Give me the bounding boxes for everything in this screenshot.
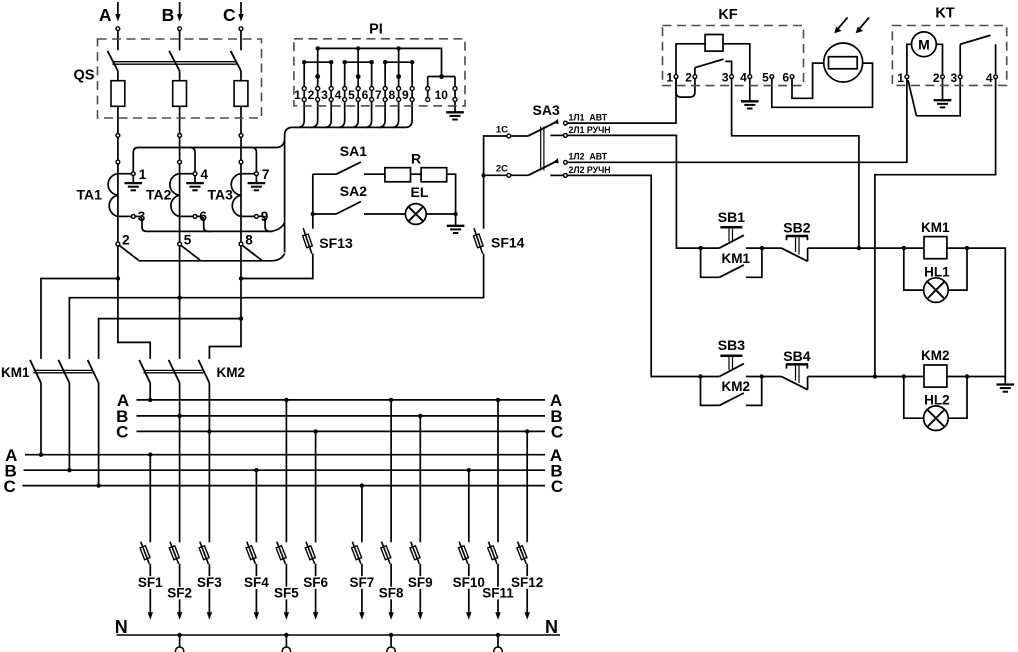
breaker SF6 (306, 542, 315, 564)
coil KM1 (904, 247, 924, 249)
light arrow 1 (838, 18, 848, 29)
button SB4 (762, 376, 782, 378)
svg-text:SF8: SF8 (379, 586, 404, 601)
ground at TA2 terminal 4 (194, 176, 196, 184)
svg-text:SA2: SA2 (340, 183, 367, 199)
node on phase C (239, 134, 243, 138)
node SA3 output 2L2 (564, 174, 568, 178)
svg-text:1: 1 (897, 71, 904, 85)
node SF5 on bus (284, 398, 288, 402)
arrow SF2 to N (177, 612, 182, 620)
arrow SF11 to N (495, 612, 500, 620)
svg-text:R: R (411, 150, 421, 166)
node N feeder at x=286.4 (284, 633, 288, 637)
wire KF terminal 6 to photoresistor (792, 63, 829, 98)
wire SF4 from bus (255, 470, 257, 542)
node KM1 c2 on bus B (67, 468, 71, 472)
svg-text:C: C (551, 477, 563, 496)
wire SF13 to phase C tap (241, 254, 313, 279)
svg-text:4: 4 (986, 71, 993, 85)
contactor KM2 main contact at x=150.2 (139, 360, 150, 383)
node tap phase C (239, 276, 243, 280)
svg-text:TA1: TA1 (77, 187, 103, 203)
contactor KM1 main contact at x=41.0 (30, 360, 41, 383)
svg-text:KM2: KM2 (921, 348, 950, 363)
wire SF7 lower (361, 564, 363, 613)
breaker SF5 label (269, 587, 303, 600)
node on phase A (116, 160, 120, 164)
node KF feed join (857, 246, 861, 250)
switch SA3 pole 1 blade (511, 135, 529, 137)
node on phase A (116, 134, 120, 138)
svg-text:SB1: SB1 (718, 209, 745, 225)
svg-text:SF5: SF5 (274, 586, 299, 601)
node KM2 coil right (965, 374, 969, 378)
svg-text:SF9: SF9 (408, 575, 433, 590)
wire phase A through TA primary (117, 164, 119, 242)
switch SA2 (313, 213, 336, 215)
switch SA1 (313, 173, 336, 175)
node R-EL junction (453, 212, 457, 216)
node SF11 on bus (496, 398, 500, 402)
svg-text:HL1: HL1 (924, 264, 950, 279)
wire phase A into QS (117, 31, 119, 51)
svg-text:KF: KF (718, 7, 737, 23)
arrow SF10 to N (466, 612, 471, 620)
wire PI terminal 3 column (330, 62, 332, 86)
svg-text:SF3: SF3 (197, 575, 222, 590)
switch QS blade phase A (108, 51, 118, 71)
outer bus B (24, 469, 546, 471)
node terminal 8 (239, 242, 243, 246)
QS linkage bar (113, 61, 237, 63)
ground at EL junction (455, 214, 457, 226)
outer bus C (23, 485, 546, 487)
KM2 linkage bar (144, 369, 204, 371)
KT dashed box (892, 26, 1006, 86)
wire SF14 up to SA3 feed (484, 136, 507, 229)
svg-text:2: 2 (685, 71, 692, 85)
breaker SF12 label (510, 576, 544, 589)
breaker SF10 (459, 542, 468, 564)
breaker SF1 label (133, 576, 167, 589)
wire N feeder at x=179.6 (179, 635, 181, 647)
wire SF9 lower (419, 564, 421, 613)
lamp HL2 (924, 406, 949, 431)
breaker SF2 label (163, 587, 197, 600)
wire TA3 terminal 9 stub (241, 215, 255, 217)
svg-text:QS: QS (74, 68, 95, 84)
wire fuse C down (240, 106, 242, 133)
wire hook terminal 9 to bus (258, 216, 272, 231)
node terminal 2 (116, 242, 120, 246)
svg-text:2: 2 (122, 233, 130, 248)
node PI terminal 6 top (370, 87, 374, 91)
node PI terminal 2 bottom (316, 98, 320, 102)
node PI terminal 2 top (316, 87, 320, 91)
svg-text:SF10: SF10 (453, 575, 485, 590)
svg-text:4: 4 (740, 71, 747, 85)
wire R middle (411, 173, 422, 175)
wire SF8 lower (390, 564, 392, 613)
svg-text:2Л2 РУЧН: 2Л2 РУЧН (569, 165, 611, 175)
phase A input arrow (117, 2, 119, 15)
node SF9 on bus (418, 414, 422, 418)
breaker SF13 (303, 228, 312, 254)
wire SF4 lower (255, 564, 257, 613)
wire SB2 to KM1 coil (808, 247, 904, 249)
svg-text:8: 8 (389, 88, 396, 102)
svg-text:1: 1 (666, 71, 673, 85)
arrow SF6 to N (313, 612, 318, 620)
wire SF7 from bus (361, 486, 363, 543)
node KT terminal 1 (905, 75, 909, 79)
node KF terminal 4 (748, 75, 752, 79)
breaker SF4 label (239, 576, 273, 589)
svg-text:KM1: KM1 (722, 251, 751, 266)
wire 1L1 AVT to KF terminal 1 (567, 79, 676, 124)
svg-text:1: 1 (294, 88, 301, 102)
svg-text:5: 5 (762, 71, 769, 85)
PI top bus (318, 48, 442, 76)
wire tap phase C to KM1 contact 3 (99, 319, 241, 359)
wire PI terminal 10 feed (428, 76, 455, 78)
svg-text:3: 3 (951, 71, 958, 85)
wire KF jumper terminals 1-2 (676, 79, 695, 98)
photoresistor body (829, 57, 858, 69)
node PI terminal 9 top (410, 87, 414, 91)
wire phase C (240, 137, 242, 160)
wire SF1 from bus (149, 455, 151, 543)
node KM2 c1 on inner bus A (148, 398, 152, 402)
breaker SF3 label (192, 576, 226, 589)
node KT terminal 2 (941, 75, 945, 79)
button SB2 (762, 247, 782, 249)
ground at KF terminal 4 (749, 79, 751, 101)
switch QS blade phase C (231, 51, 241, 71)
wire PI terminal 8 column (398, 48, 400, 86)
breaker SF12 (518, 542, 527, 564)
node PI T2 junction (315, 74, 320, 79)
node terminal 1 (131, 172, 135, 176)
node PI terminal 4 bottom (343, 98, 347, 102)
wire N feeder at x=498.0 (497, 635, 499, 647)
wire PI T10 to ground (454, 101, 456, 111)
node terminal 6 (193, 215, 197, 219)
svg-text:KT: KT (935, 6, 954, 22)
svg-text:1Л1 АВТ: 1Л1 АВТ (569, 112, 608, 122)
node PI terminal 7 bottom (383, 98, 387, 102)
svg-text:7: 7 (375, 88, 382, 102)
wire QS blade to fuse B (179, 71, 181, 81)
node SA3 2C input (507, 173, 511, 177)
wire harness top line to terminals 1,4,7 (133, 141, 284, 172)
node terminal 9 (255, 215, 259, 219)
svg-text:4: 4 (335, 88, 342, 102)
phase B input arrow (179, 2, 181, 15)
node KT terminal 4 (994, 75, 998, 79)
contact KM2 aux (701, 377, 720, 406)
svg-text:SF13: SF13 (319, 235, 353, 251)
node SA3 output 1L1 (564, 121, 568, 125)
wire tap phase A to KM1 contact 1 (41, 279, 118, 359)
wire phase B to KM2 contact 2 (179, 246, 181, 359)
wire KM2 contact2 to inner bus B and SF2 (179, 383, 181, 542)
wire TA2 terminal 4 stub (180, 173, 194, 175)
node KF terminal 5 (770, 75, 774, 79)
svg-text:5: 5 (348, 88, 355, 102)
wire KM2 row to ground (967, 376, 1005, 378)
breaker SF9 (411, 542, 420, 564)
resistor R box1 (385, 168, 411, 182)
arrow SF7 to N (359, 612, 364, 620)
relay KF coil (676, 44, 705, 75)
switch QS blade phase B (169, 51, 179, 71)
node KF terminal 6 (790, 75, 794, 79)
svg-text:SB2: SB2 (783, 220, 810, 236)
wire SF1 lower (149, 564, 151, 613)
phase C input arrow (240, 2, 242, 15)
wire PI terminal 4 column (344, 62, 346, 86)
svg-text:6: 6 (782, 71, 789, 85)
node SF4 on bus (254, 468, 258, 472)
node KM1 row left (698, 246, 702, 250)
PI mid bus 7-9 (385, 61, 412, 63)
wire phase B through TA primary (179, 164, 181, 242)
wire hook terminal 6 to bus (197, 216, 211, 231)
svg-text:SF14: SF14 (491, 235, 525, 251)
wire SF6 from bus (315, 431, 317, 542)
svg-text:KM2: KM2 (217, 365, 246, 380)
wire TA3 terminal 7 stub (241, 173, 255, 175)
node PI terminal 6 bottom (370, 98, 374, 102)
node KT feed join (873, 374, 877, 378)
wire TA1 terminal 1 stub (118, 173, 131, 175)
wire SB4 to KM2 coil (808, 376, 904, 378)
node N feeder at x=498.0 (496, 633, 500, 637)
node KM2 row left (698, 374, 702, 378)
node SF6 on bus (313, 429, 317, 433)
node SA3 output 2L1 (564, 134, 568, 138)
node KF terminal 1 (674, 75, 678, 79)
wire KT terminal 4 to KM2 row (875, 79, 996, 377)
wire harness drop to terminal 4 (190, 148, 195, 172)
breaker SF8 (382, 542, 391, 564)
wire tap phase B to KM1 contact 2 and SF14 (69, 254, 483, 359)
svg-text:8: 8 (245, 233, 253, 248)
wire SF11 from bus (497, 400, 499, 542)
node PI top bus T2 (315, 46, 319, 50)
svg-text:9: 9 (402, 88, 409, 102)
contactor KM2 main contact at x=179.6 (169, 360, 180, 383)
svg-text:EL: EL (411, 184, 429, 200)
breaker SF1 (141, 542, 150, 564)
svg-text:N: N (115, 617, 128, 637)
breaker SF3 (200, 542, 209, 564)
wire to 2C (486, 174, 507, 176)
wire SF9 from bus (419, 416, 421, 542)
node terminal 5 (178, 242, 182, 246)
node KM2 row mid (760, 374, 764, 378)
blade terminal 8 to bundle (243, 246, 262, 261)
arrow SF4 to N (254, 612, 259, 620)
node SF12 on bus (525, 429, 529, 433)
wire SA1-SA2 left vertical (312, 174, 314, 229)
node KF terminal 3 (730, 75, 734, 79)
SA3 linkage bars (540, 127, 542, 171)
wire N feeder at x=391.1 (390, 635, 392, 647)
PI mid bus 4-6 (345, 61, 372, 63)
node tap phase C lower (239, 316, 243, 320)
wire SF11 lower (497, 564, 499, 613)
wire 2L1 RUCHN to KM1 row (567, 135, 700, 248)
node KT terminal 3 (958, 75, 962, 79)
svg-text:2: 2 (308, 88, 315, 102)
node PI mid bus T6 (369, 60, 373, 64)
svg-text:SF7: SF7 (350, 575, 375, 590)
node phase C input terminal (239, 27, 243, 31)
arrow SF5 to N (284, 612, 289, 620)
blade terminal 5 to bundle (181, 246, 200, 261)
wire R to junction (447, 174, 456, 214)
node KF terminal 2 (693, 75, 697, 79)
wire EL to junction (426, 213, 455, 215)
wire QS blade to fuse C (240, 71, 242, 81)
wire 2L2 RUCHN to KM2 row (567, 175, 700, 376)
svg-text:SB4: SB4 (783, 348, 810, 364)
wire KM2 contact1 to inner bus A (149, 383, 151, 400)
wire SF8 from bus (390, 400, 392, 542)
switch SA3 pole 2 blade (511, 174, 529, 176)
svg-text:SF6: SF6 (303, 575, 328, 590)
wire phase C through TA primary (240, 164, 242, 242)
wire KM1 contact3 to bus C (98, 383, 100, 486)
breaker SF10 label (452, 576, 486, 589)
wire 1L2 AVT to KT terminal 1 (567, 79, 907, 163)
node KM2 c2 on inner bus B (177, 414, 181, 418)
wire QS blade to fuse A (117, 71, 119, 81)
ground at TA3 terminal 7 (255, 176, 257, 184)
node PI terminal 5 bottom (356, 98, 360, 102)
wire phase C into QS (240, 31, 242, 51)
svg-text:C: C (551, 423, 563, 442)
svg-text:2Л1 РУЧН: 2Л1 РУЧН (569, 125, 611, 135)
node SA3 output 1L2 (564, 160, 568, 164)
node PI terminal 8 bottom (397, 98, 401, 102)
svg-text:10: 10 (435, 88, 449, 102)
svg-text:4: 4 (201, 167, 209, 182)
node SF1 on bus (148, 453, 152, 457)
wire N feeder at x=286.4 (285, 635, 287, 647)
node on phase C (239, 160, 243, 164)
svg-text:M: M (918, 36, 930, 52)
svg-text:SA3: SA3 (533, 102, 560, 118)
node SF10 on bus (467, 468, 471, 472)
breaker SF2 (170, 542, 179, 564)
breaker SF9 label (403, 576, 437, 589)
PI terminal drops to bundle (297, 101, 304, 127)
outer bus A (25, 454, 545, 456)
relay KT motor (907, 44, 912, 75)
wire KM2 contact3 to inner bus C and SF3 (208, 383, 210, 542)
wire PI T10 right pair (454, 77, 456, 87)
node PI terminal 3 top (329, 87, 333, 91)
resistor R box2 (421, 168, 447, 182)
wire SF2 lower (179, 564, 181, 613)
wire SA3 output 2L2 stub (550, 174, 563, 176)
wire PI T10 left pair (427, 77, 429, 87)
ground at control rows (1004, 377, 1006, 385)
node SF7 on bus (360, 483, 364, 487)
node KM1 coil right (965, 246, 969, 250)
PI mid bus 1-3 (304, 61, 331, 63)
svg-text:2C: 2C (496, 164, 508, 175)
wire KT jumper terminal 1 to 3 (908, 80, 916, 116)
node PI terminal 1 top (302, 87, 306, 91)
fuse QS phase C (234, 81, 248, 107)
svg-text:C: C (223, 5, 236, 25)
wire SF10 from bus (468, 470, 470, 542)
wire PI terminal 5 column (357, 48, 359, 86)
node terminal 3 (131, 215, 135, 219)
wire SF5 lower (285, 564, 287, 613)
svg-text:N: N (545, 617, 558, 637)
node KM1 c1 on bus A (39, 453, 43, 457)
breaker SF4 (247, 542, 256, 564)
svg-text:SF4: SF4 (244, 575, 269, 590)
inner bus A (137, 399, 546, 401)
arrow SF9 to N (418, 612, 423, 620)
wire phase A (117, 137, 119, 160)
node PI top bus T8 (396, 46, 400, 50)
arrow SF1 to N (148, 612, 153, 620)
wire PI terminal 7 column (384, 62, 386, 86)
node PI T10 junction (439, 74, 444, 79)
ground at TA1 terminal 1 (132, 176, 134, 184)
node PI mid bus T1 (302, 60, 306, 64)
wire harness drop to terminal 7 (252, 148, 257, 172)
KF dashed box (663, 26, 804, 86)
svg-text:2: 2 (933, 71, 940, 85)
node SA3 2C feed (481, 173, 485, 177)
svg-text:TA2: TA2 (146, 187, 172, 203)
node on phase B (178, 160, 182, 164)
node SA3 1C input (507, 134, 511, 138)
relay KT contact (959, 44, 961, 75)
node PI T8 junction (396, 74, 401, 79)
node tap phase B (177, 296, 181, 300)
node phase A input terminal (116, 27, 120, 31)
breaker SF11 label (481, 587, 515, 600)
svg-text:KM2: KM2 (722, 379, 751, 394)
svg-text:6: 6 (362, 88, 369, 102)
svg-text:B: B (162, 5, 175, 25)
node KM2 coil left (902, 374, 906, 378)
node KM1 c3 on bus C (96, 483, 100, 487)
wire SF3 lower (208, 564, 210, 613)
node PI terminal 8 top (397, 87, 401, 91)
wire phase B into QS (179, 31, 181, 51)
wire KM1 contact1 to bus A (40, 383, 42, 455)
svg-text:C: C (116, 423, 128, 442)
wire SF6 lower (315, 564, 317, 613)
wire fuse B down (179, 106, 181, 133)
svg-text:SF1: SF1 (138, 575, 163, 590)
arrow SF8 to N (388, 612, 393, 620)
breaker SF11 (488, 542, 497, 564)
svg-text:SB3: SB3 (718, 337, 745, 353)
lamp EL (405, 204, 426, 225)
